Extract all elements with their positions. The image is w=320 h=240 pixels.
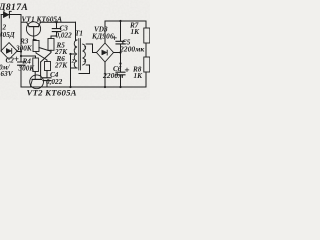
resistor R4 — [33, 58, 39, 72]
capacitor C4 — [43, 78, 51, 87]
transistor VT2 — [30, 75, 44, 89]
resistor R7 — [144, 28, 150, 43]
capacitor C2 — [15, 57, 25, 87]
wire collector VT1 — [21, 21, 27, 23]
node bottom rail at C6 — [119, 86, 121, 88]
wire left input vertical — [0, 15, 2, 52]
wire H1 top-left with VD1 — [1, 14, 21, 16]
transformer T1 secondary winding — [83, 44, 86, 65]
wire VT2 collector vertical — [40, 62, 42, 75]
transformer T1 primary winding — [74, 40, 77, 68]
svg-text:2: 2 — [71, 59, 75, 65]
wire right edge to bottom rail — [145, 72, 147, 87]
node center tap — [69, 53, 71, 55]
wire T1 pin2 stub — [71, 67, 78, 69]
svg-text:КД906: КД906 — [91, 33, 114, 41]
wire T1 pin3 to bridge VD3 — [86, 44, 96, 53]
wire left bridge to junction — [17, 51, 21, 53]
transistor VT1 — [26, 22, 40, 40]
svg-text:1К: 1К — [131, 28, 141, 36]
zener VD1 Д817А — [3, 11, 11, 18]
svg-text:27К: 27К — [54, 62, 68, 70]
wire emitter VT1 to C3 node to T1 — [40, 21, 76, 23]
svg-text:300К: 300К — [18, 65, 36, 73]
svg-text:1: 1 — [74, 46, 77, 52]
svg-text:405Д: 405Д — [0, 31, 16, 39]
wire VT2 collector diagonal to R5 — [41, 50, 51, 62]
resistor R3 — [33, 41, 39, 52]
resistor R6 — [45, 62, 51, 71]
svg-text:VT1 КТ605А: VT1 КТ605А — [22, 15, 63, 24]
wire R3 to R5 bottom diagonal — [39, 48, 51, 52]
node C6 top — [119, 62, 121, 64]
transformer core — [79, 39, 81, 71]
svg-text:2200мк: 2200мк — [119, 45, 144, 54]
node corner x21 — [20, 15, 22, 23]
svg-text:Т1: Т1 — [75, 30, 83, 38]
resistor R5 — [48, 39, 54, 51]
wire R6 to C4 — [46, 71, 48, 78]
wire T1 center tap — [71, 53, 75, 55]
node rail C5 — [119, 20, 121, 22]
wire bridge bottom to rail — [104, 62, 106, 87]
wire top right rail — [105, 20, 146, 22]
node bottom rail at bridge VD3 — [104, 86, 106, 88]
wire bridge top to rail — [104, 21, 106, 43]
node VT1 base junction — [33, 39, 35, 41]
node C5C6 — [119, 51, 121, 53]
node R4 wire — [20, 55, 22, 57]
wire between R7 R8 — [145, 43, 147, 57]
wire center tap down to bottom rail — [70, 54, 72, 87]
capacitor C5 — [113, 21, 125, 72]
svg-text:3: 3 — [83, 46, 87, 52]
wire right edge down — [145, 21, 147, 28]
node C3 top — [55, 21, 57, 23]
wire base to R3 — [34, 39, 36, 42]
wire bottom rail — [21, 86, 146, 88]
resistor R8 — [144, 57, 150, 72]
node bridge right — [20, 50, 22, 52]
svg-text:0,022: 0,022 — [46, 78, 63, 86]
svg-text:4: 4 — [83, 59, 87, 65]
wire x21 vertical to C2 — [20, 22, 22, 61]
wire R4 to VT2 base — [34, 72, 36, 77]
label T1 pins 1 2 3 4 — [71, 46, 87, 65]
wire R3 bottom diagonal to R6 — [36, 52, 47, 62]
wire junction to R4 — [21, 56, 36, 58]
svg-text:63V: 63V — [1, 70, 14, 78]
bridge rectifier VD3 КД906 — [97, 43, 114, 62]
wire T1 pin4 — [79, 65, 90, 74]
wire T1 pin1 from top rail — [76, 22, 78, 40]
capacitor C3 — [51, 22, 61, 38]
bridge rectifier VD2 КЦ405Д — [1, 43, 17, 60]
wire bridge right to C5C6 node — [114, 52, 121, 54]
svg-text:2200м: 2200м — [102, 71, 123, 80]
svg-text:Д817А: Д817А — [0, 3, 28, 13]
capacitor C6 — [116, 68, 129, 87]
svg-text:300К: 300К — [15, 45, 33, 53]
node bottom rail at center tap — [69, 86, 71, 88]
svg-text:0,022: 0,022 — [56, 32, 73, 40]
svg-text:1К: 1К — [134, 72, 144, 80]
svg-text:VT2 КТ605А: VT2 КТ605А — [27, 88, 77, 98]
